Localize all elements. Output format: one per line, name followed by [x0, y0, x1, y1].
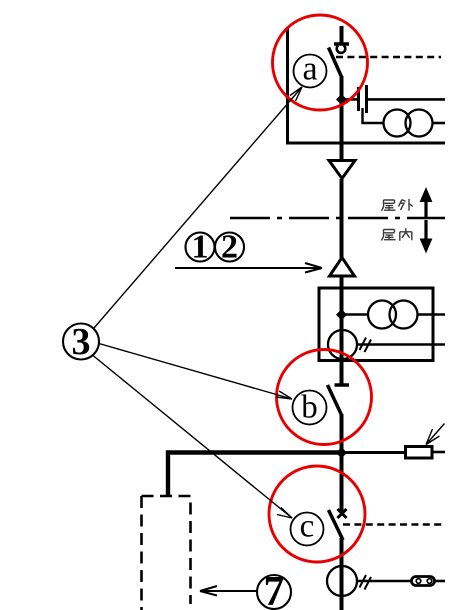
voltage transformer VT2 circle 2	[390, 301, 418, 329]
cable termination T2 (indoor, up triangle)	[330, 258, 355, 277]
current transformer CT1	[328, 330, 357, 359]
label 1	[186, 229, 215, 266]
label 7	[257, 569, 291, 610]
junction node J3	[336, 447, 347, 458]
indoor direction arrow (down)	[420, 220, 433, 254]
disconnect switch DSa blade	[329, 48, 343, 79]
wire: cubicle box1 bottom edge	[286, 142, 445, 145]
disconnect switch DSa fixed contact hook	[337, 45, 346, 53]
svg-text:b: b	[301, 390, 318, 426]
callout line from label 3 to switch b	[99, 344, 292, 400]
boundary line outdoor/indoor (dash-dot)	[230, 217, 445, 220]
voltage transformer VT2 circle 1	[368, 301, 396, 329]
svg-text:1: 1	[192, 229, 209, 266]
label 2	[215, 229, 244, 266]
callout arrow from label 7 to load box	[200, 586, 257, 596]
svg-text:c: c	[300, 509, 315, 545]
label 屋外 (outdoor)	[382, 199, 413, 211]
coupling capacitor C1 right plate	[365, 85, 368, 113]
label 屋内 (indoor)	[382, 228, 412, 241]
label 3	[63, 321, 99, 363]
wire: VT2 secondary lead	[418, 313, 446, 316]
wire: test block right lead	[435, 580, 446, 583]
cable termination T1 (outdoor pothead, down triangle)	[329, 161, 355, 179]
disconnect switch DSb fixed contact bar	[335, 383, 350, 387]
dashed control line from switch a	[336, 56, 441, 59]
wire: main conductor segment 4	[340, 414, 344, 511]
callout line from label 3 to switch a	[94, 87, 302, 328]
wire: fuse right lead	[433, 451, 445, 454]
fuse cutout switch c blade	[329, 510, 344, 540]
wire: capacitor output	[368, 98, 445, 101]
svg-text:2: 2	[221, 229, 238, 266]
wire: main conductor segment 1	[340, 76, 344, 162]
highlight circle around switch b	[277, 350, 372, 445]
wire: cubicle box1 left edge	[286, 27, 289, 144]
wire: capacitor tap drop	[363, 108, 385, 123]
label c	[291, 509, 324, 546]
load equipment box (dashed)	[142, 496, 191, 610]
svg-text:3: 3	[72, 321, 91, 363]
svg-text:7: 7	[264, 569, 285, 610]
wire: VT1 secondary lead	[433, 122, 446, 125]
wire: feeder to left	[166, 450, 342, 454]
fuse cutout switch c fixed contact (x mark)	[338, 509, 347, 518]
test terminal block TB1	[412, 577, 435, 586]
voltage transformer VT1 circle 2	[406, 110, 433, 137]
dashed control line from switch c	[343, 523, 444, 526]
metering cubicle box2	[319, 288, 433, 361]
junction node J2	[336, 309, 347, 320]
callout line from label 3 to switch c	[93, 356, 292, 519]
label a	[294, 51, 327, 88]
disconnect switch DSb blade	[328, 385, 343, 416]
outdoor direction arrow (up)	[420, 187, 433, 218]
CT2 secondary 2-wire marks	[360, 575, 372, 590]
current transformer CT2	[327, 566, 357, 596]
callout arrow from labels 1,2 to cable termination	[175, 263, 322, 273]
wire: main conductor segment 5	[340, 538, 344, 610]
disconnect switch DSa fixed contact bar	[334, 42, 349, 46]
wire: feeder to right	[342, 451, 405, 454]
wire: feeder drop to load box	[166, 451, 170, 497]
wire: VT2 primary lead	[343, 313, 369, 316]
fuse F1	[406, 447, 433, 459]
wire: CT1 secondary lead	[357, 343, 445, 346]
junction node J1	[336, 94, 347, 105]
wire: incoming supply stub	[340, 26, 344, 43]
wire: CT2 secondary lead	[357, 580, 411, 583]
label b	[293, 390, 327, 426]
annotation arrow to fuse F1	[426, 424, 445, 445]
coupling capacitor C1 left plate	[357, 87, 360, 111]
voltage transformer VT1 circle 1	[384, 110, 411, 137]
highlight circle around switch a	[273, 15, 368, 110]
wire: main conductor segment 3	[340, 277, 344, 384]
svg-text:a: a	[302, 51, 317, 88]
highlight circle around switch c	[269, 466, 365, 562]
CT1 secondary 2-wire marks	[360, 338, 372, 353]
wire: main conductor segment 2	[340, 179, 344, 258]
wire: to coupling capacitor	[343, 98, 357, 101]
